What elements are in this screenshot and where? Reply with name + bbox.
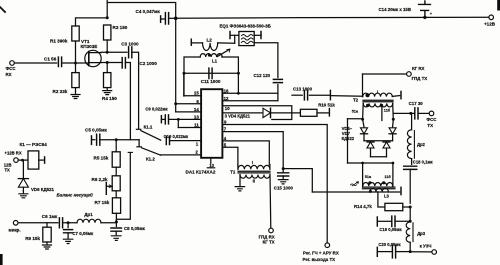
svg-text:RX: RX bbox=[6, 72, 12, 77]
node VD6 junction bbox=[21, 159, 24, 162]
wire mic to C6 bbox=[18, 222, 58, 224]
wire +12V rail bbox=[176, 17, 491, 18]
resistor R2 33k bbox=[72, 73, 79, 88]
wire K1.2 to C8 node bbox=[116, 153, 130, 222]
pin 15 wire bbox=[184, 95, 201, 97]
svg-text:12: 12 bbox=[224, 96, 229, 101]
wire R5 to R6 bbox=[115, 167, 117, 176]
pin 2 wire bbox=[161, 154, 201, 156]
capacitor C14 20mk x 15V bbox=[419, 1, 431, 18]
wire C1 to gate bbox=[62, 62, 89, 64]
trimmer wiper R6 bbox=[105, 183, 107, 195]
wire C3 to K1.1 line bbox=[132, 52, 139, 129]
resistor R10 51k bbox=[300, 109, 317, 116]
svg-text:C7 0,05мк: C7 0,05мк bbox=[72, 231, 94, 236]
wire R3 bottom to drain bbox=[106, 40, 108, 52]
svg-text:51а: 51а bbox=[365, 175, 372, 179]
node ring left dot bbox=[361, 118, 364, 121]
wire loop mid rail bbox=[184, 72, 238, 74]
svg-text:+12В RX: +12В RX bbox=[5, 150, 22, 155]
transformer T1 secondary bbox=[240, 175, 270, 179]
wire R7 to mic node bbox=[115, 213, 117, 222]
svg-text:Т1: Т1 bbox=[230, 169, 236, 174]
svg-text:C17 30: C17 30 bbox=[409, 101, 424, 106]
wire T2 primary left up bbox=[362, 74, 364, 97]
wire gate to R2 bbox=[75, 63, 77, 73]
wire C4 to rail junction bbox=[169, 17, 176, 19]
wire drain out bbox=[101, 51, 127, 53]
stub bar R10 bbox=[328, 109, 330, 116]
node FCC RX input terminal bbox=[10, 61, 15, 66]
capacitor C1 56 bbox=[58, 57, 61, 67]
capacitor C18 0,1mk bbox=[411, 159, 413, 165]
svg-text:R10 51k: R10 51k bbox=[318, 103, 335, 108]
ground C15 bbox=[278, 180, 288, 184]
capacitor C3 1000 bbox=[129, 47, 132, 58]
node source junction R4 bbox=[106, 61, 109, 64]
svg-text:C15 1000: C15 1000 bbox=[274, 186, 294, 191]
wire C12 down to pins bbox=[277, 85, 279, 101]
resistor R3 150 bbox=[104, 25, 111, 40]
wire R1 top bbox=[76, 18, 108, 26]
diode VD4 KD521 bbox=[263, 108, 271, 117]
wire T3 left lead bbox=[362, 163, 364, 186]
pin 1 wire bbox=[170, 140, 201, 142]
resistor R1 390k bbox=[72, 26, 79, 41]
pin 12 wire bbox=[222, 100, 278, 102]
svg-text:КГ RX: КГ RX bbox=[412, 66, 425, 71]
pin 13 wire bbox=[169, 118, 202, 120]
wire T2 center tap bbox=[381, 106, 383, 120]
svg-text:L2: L2 bbox=[207, 38, 213, 43]
pin 10r wire bbox=[222, 106, 291, 120]
pin 6 wire bbox=[176, 103, 201, 105]
wire C2 to K1 vertical bbox=[125, 63, 130, 140]
ground R9 bbox=[43, 242, 52, 249]
wire ring to C17 bbox=[393, 112, 414, 114]
node C14 rail junction bbox=[423, 16, 426, 19]
svg-text:C5 0,05мк: C5 0,05мк bbox=[85, 128, 107, 133]
filter EQ1 FE3643-638-500-3B bbox=[229, 32, 231, 39]
svg-text:15: 15 bbox=[194, 91, 199, 96]
svg-text:К1.2: К1.2 bbox=[146, 156, 155, 161]
pin 9 wire ARU bbox=[222, 125, 327, 243]
node gate junction bbox=[74, 62, 77, 65]
node pin16 loop junction bbox=[237, 92, 240, 95]
svg-text:C11 1000: C11 1000 bbox=[201, 79, 221, 84]
node loop left junction bbox=[183, 72, 186, 75]
node ring right dot bbox=[392, 118, 395, 121]
capacitor C7 0,05mk bbox=[67, 223, 69, 228]
svg-text:к УЗЧ: к УЗЧ bbox=[420, 243, 432, 248]
wire ring bottom rail bbox=[348, 162, 394, 164]
svg-text:C14 20мк x 15В: C14 20мк x 15В bbox=[379, 7, 412, 12]
svg-text:ФСС: ФСС bbox=[426, 117, 437, 122]
wire input to C1 bbox=[14, 62, 56, 64]
node GPD RX terminal bbox=[269, 228, 274, 233]
node Dr2 top junction bbox=[409, 112, 412, 115]
wire T2 primary right stub bbox=[392, 95, 399, 98]
svg-text:+12В: +12В bbox=[484, 21, 496, 26]
svg-text:К1 — РЭС64: К1 — РЭС64 bbox=[20, 142, 48, 147]
node +12V terminal bbox=[489, 15, 494, 20]
resistor R9 15k bbox=[46, 223, 48, 227]
wire EQ1 out bbox=[254, 43, 278, 78]
diode VD top-left bbox=[363, 119, 364, 127]
resistor R14 4,7k bbox=[385, 203, 403, 210]
svg-text:C3 1000: C3 1000 bbox=[121, 42, 139, 47]
wire source out bbox=[101, 62, 121, 64]
inductor L3 bbox=[370, 188, 389, 192]
svg-text:TX: TX bbox=[427, 123, 433, 128]
wire pin15 up to loop bbox=[183, 74, 185, 96]
capacitor C8 0,05mk bbox=[115, 222, 117, 227]
svg-text:11: 11 bbox=[194, 123, 199, 128]
capacitor C6 1mk bbox=[59, 218, 62, 228]
wire T3 tap to R14 bbox=[378, 192, 385, 207]
node drain junction bbox=[106, 51, 109, 54]
pin 16 wire bbox=[222, 92, 278, 94]
svg-text:R5 15k: R5 15k bbox=[94, 155, 109, 160]
wire C6 to junction bbox=[63, 222, 77, 224]
pin 3 wire VD4 row bbox=[222, 112, 261, 114]
wire ring left rail bbox=[348, 118, 363, 120]
node C7 junction bbox=[67, 221, 70, 224]
svg-text:DA1 К174ХА2: DA1 К174ХА2 bbox=[186, 170, 216, 175]
inductor L2 bbox=[190, 39, 192, 45]
diode VD bottom-left bbox=[367, 141, 374, 143]
svg-text:Др2: Др2 bbox=[417, 142, 426, 147]
wire column to C19 bbox=[409, 207, 411, 221]
transformer T1 core bbox=[238, 170, 270, 172]
node ARU terminal bbox=[325, 243, 330, 248]
wire ring mid horizontal bbox=[364, 140, 393, 142]
pin 5 wire bbox=[222, 147, 238, 165]
svg-text:51а: 51а bbox=[352, 109, 359, 113]
transformer T3 winding bbox=[363, 183, 393, 187]
svg-text:R1 390k: R1 390k bbox=[50, 38, 68, 43]
node relay terminal bbox=[14, 158, 19, 163]
inductor Dr2 bbox=[411, 113, 413, 129]
transformer T2 secondary bbox=[363, 103, 392, 107]
svg-text:C18 0,1мк: C18 0,1мк bbox=[413, 159, 434, 164]
pin 10 bottom stub bbox=[210, 158, 212, 164]
resistor R6 2,2k trimmer bbox=[112, 176, 120, 191]
svg-text:Др3: Др3 bbox=[417, 231, 426, 236]
wire resonant loop bbox=[184, 57, 200, 96]
ground C8 bbox=[111, 236, 121, 241]
switch K1.1 contact bbox=[136, 128, 140, 130]
svg-text:КД522: КД522 bbox=[342, 136, 355, 141]
wire T1 sec left to ground bbox=[239, 175, 241, 187]
wire source to R4 bbox=[106, 63, 108, 73]
svg-text:II: II bbox=[253, 179, 255, 184]
node KG RX terminal bbox=[407, 72, 412, 77]
capacitor C9 0,022mk bbox=[160, 116, 162, 123]
capacitor C11 1000 bbox=[209, 68, 212, 79]
node mic line junction bbox=[115, 220, 118, 223]
wire IC supply drop bbox=[175, 18, 177, 112]
ground R4 bbox=[103, 88, 112, 95]
node R3 top junction bbox=[106, 16, 109, 19]
transformer T1 primary bbox=[238, 165, 270, 169]
svg-text:К1.1: К1.1 bbox=[144, 124, 153, 129]
svg-text:микр.: микр. bbox=[9, 227, 21, 232]
wire R6 to R7 bbox=[115, 191, 117, 198]
scan mark bottom-left bbox=[0, 254, 3, 265]
node ring bottom dots bbox=[361, 162, 364, 165]
wire KG line bbox=[363, 73, 407, 75]
svg-text:3 VD4 КД521: 3 VD4 КД521 bbox=[225, 114, 251, 119]
svg-text:C10 0,022мк: C10 0,022мк bbox=[164, 134, 189, 139]
svg-text:TX: TX bbox=[5, 168, 11, 173]
wire top feed line bbox=[107, 3, 176, 19]
svg-text:11б: 11б bbox=[384, 108, 391, 112]
node FCC TX terminal bbox=[429, 111, 434, 116]
capacitor C13 1000 bbox=[292, 94, 302, 96]
svg-text:13: 13 bbox=[194, 114, 199, 119]
svg-text:VD7: VD7 bbox=[342, 131, 351, 136]
capacitor C4 0,047mk bbox=[160, 16, 162, 22]
wire C17 to terminal bbox=[418, 112, 429, 114]
diode VD top-right bbox=[392, 119, 395, 127]
IC DA1 K174XA2 body bbox=[201, 89, 222, 158]
svg-text:C8 0,05мк: C8 0,05мк bbox=[124, 226, 146, 231]
ground R2 bbox=[75, 88, 77, 92]
wire K1.2 drop bbox=[138, 140, 140, 146]
svg-text:11б: 11б bbox=[384, 175, 391, 179]
svg-text:C20 0,05мк: C20 0,05мк bbox=[378, 242, 401, 247]
ground VD6 bbox=[22, 187, 24, 191]
svg-text:R7 15k: R7 15k bbox=[95, 200, 110, 205]
inductor Dr3 bbox=[406, 222, 410, 242]
scan mark top-left bbox=[0, 7, 5, 12]
svg-text:VD6 КД521: VD6 КД521 bbox=[31, 187, 54, 192]
wire T1 sec right to GPD terminal bbox=[269, 175, 272, 229]
svg-text:C1 56: C1 56 bbox=[44, 57, 57, 62]
wire T2 sec left lead bbox=[362, 103, 365, 119]
wire Dr1 to node bbox=[101, 222, 116, 224]
capacitor C5 0,05mk bbox=[91, 136, 93, 145]
svg-text:C9 0,022мк: C9 0,022мк bbox=[145, 107, 168, 112]
svg-text:КП303Е: КП303Е bbox=[81, 44, 98, 49]
svg-text:C2 1000: C2 1000 bbox=[139, 61, 157, 66]
svg-text:ГПД TX: ГПД TX bbox=[412, 76, 428, 81]
svg-text:R9 15k: R9 15k bbox=[25, 236, 40, 241]
wire audio bus bbox=[312, 191, 399, 193]
wire C15 node to bus bbox=[283, 169, 312, 192]
wire ring lower link bbox=[371, 156, 387, 158]
transformer T2 core bbox=[363, 99, 393, 101]
svg-text:C6 1мк: C6 1мк bbox=[42, 214, 58, 219]
wire T3 right lead bbox=[392, 163, 394, 186]
svg-text:C13 1000: C13 1000 bbox=[293, 86, 313, 91]
switch K1.2 lower contact tick bbox=[128, 151, 132, 153]
node C19 junction bbox=[409, 220, 412, 223]
wire T2 sec right lead bbox=[392, 103, 395, 119]
pin 7 wire to C15 bbox=[222, 132, 283, 169]
switch K1.1 arm bbox=[141, 131, 161, 141]
capacitor C2 1000 bbox=[122, 58, 125, 69]
svg-text:14: 14 bbox=[194, 107, 199, 112]
wire C5 node bbox=[100, 139, 139, 141]
node T2 primary dot bbox=[366, 93, 370, 97]
svg-text:10: 10 bbox=[225, 106, 230, 111]
wire R10 right bbox=[317, 112, 328, 114]
transformer T2 primary bbox=[363, 93, 392, 97]
node pin6 junction bbox=[174, 102, 177, 105]
wire C13bar to T2 bbox=[330, 95, 362, 98]
capacitor C10 0,022mk bbox=[166, 137, 169, 145]
svg-text:L1: L1 bbox=[212, 58, 218, 63]
svg-text:Баланс несущей: Баланс несущей bbox=[57, 193, 94, 198]
svg-text:Др1: Др1 bbox=[84, 212, 93, 217]
svg-text:I: I bbox=[252, 160, 253, 165]
transformer T3 core bbox=[363, 186, 395, 188]
pin 14 wire bbox=[176, 111, 201, 113]
capacitor C19 0,05mk bbox=[376, 217, 378, 226]
svg-text:R2 33k: R2 33k bbox=[53, 89, 68, 94]
svg-text:КГ TX: КГ TX bbox=[263, 240, 275, 245]
svg-text:I: I bbox=[377, 90, 378, 94]
capacitor C12 120 bbox=[273, 79, 282, 82]
diode VD bottom-right bbox=[383, 141, 390, 143]
svg-text:Рег. ГЧ + АРУ RX: Рег. ГЧ + АРУ RX bbox=[303, 251, 339, 256]
wire T1 primary leads bbox=[237, 165, 239, 170]
transistor VT1 KP303E bbox=[85, 50, 101, 66]
capacitor C20 0,05mk bbox=[376, 247, 378, 256]
svg-text:R14 4,7k: R14 4,7k bbox=[354, 204, 372, 209]
scan mark top-right bbox=[497, 0, 500, 11]
wire C5node to R5 bbox=[115, 140, 117, 152]
node loop right junction bbox=[237, 72, 240, 75]
stub bar C13 bbox=[329, 90, 331, 99]
svg-text:16: 16 bbox=[224, 88, 229, 93]
inductor Dr1 bbox=[77, 219, 101, 223]
capacitor C15 1000 bbox=[282, 167, 285, 170]
diode VD6 KD521 bbox=[22, 160, 24, 178]
svg-text:Т2: Т2 bbox=[353, 98, 359, 103]
node +12 rail junction bbox=[174, 17, 178, 21]
wire L2 to EQ1 bbox=[234, 35, 236, 43]
wire R14 to column bbox=[403, 206, 410, 208]
svg-text:Рег. выхода TX: Рег. выхода TX bbox=[303, 257, 336, 262]
svg-text:ФСС: ФСС bbox=[6, 66, 17, 71]
wire terminal to relay bbox=[18, 159, 27, 161]
node C20 junction bbox=[409, 250, 412, 253]
node R14 junction bbox=[409, 206, 412, 209]
node UZCh terminal bbox=[432, 250, 437, 255]
svg-text:R6 2,2k: R6 2,2k bbox=[92, 177, 109, 182]
svg-text:C12 120: C12 120 bbox=[254, 73, 271, 78]
svg-text:L3: L3 bbox=[384, 194, 390, 199]
wire Dr3 to C20 node bbox=[409, 242, 411, 251]
svg-text:EQ1 ФЭ3643-638-500-3Б: EQ1 ФЭ3643-638-500-3Б bbox=[220, 23, 271, 28]
svg-text:R3 150: R3 150 bbox=[113, 25, 128, 30]
tuning mark bbox=[351, 182, 359, 186]
ground T1 bbox=[235, 187, 244, 191]
wire to UZCh bbox=[410, 251, 432, 253]
svg-text:R4 150: R4 150 bbox=[102, 96, 117, 101]
resistor R5 15k bbox=[112, 152, 120, 167]
capacitor C17 30 bbox=[415, 108, 418, 119]
wire VD4 out to R10 bbox=[271, 112, 301, 114]
switch K1.2 arm bbox=[142, 148, 161, 155]
inductor L1 bbox=[200, 54, 222, 57]
ground C7 bbox=[63, 239, 72, 243]
pin 11 wire bbox=[178, 127, 201, 129]
wire pin13 to pin11 drop bbox=[177, 119, 179, 127]
svg-text:C19 0,05мк: C19 0,05мк bbox=[379, 227, 402, 232]
resistor R7 15k bbox=[112, 198, 120, 214]
node C5 junction bbox=[115, 138, 118, 141]
wire R1 bottom to gate bbox=[75, 41, 77, 63]
svg-text:C4 0,047мк: C4 0,047мк bbox=[136, 9, 161, 14]
node mic terminal bbox=[13, 221, 18, 226]
pin 4 wire bbox=[222, 141, 269, 165]
resistor R4 150 bbox=[104, 73, 111, 88]
